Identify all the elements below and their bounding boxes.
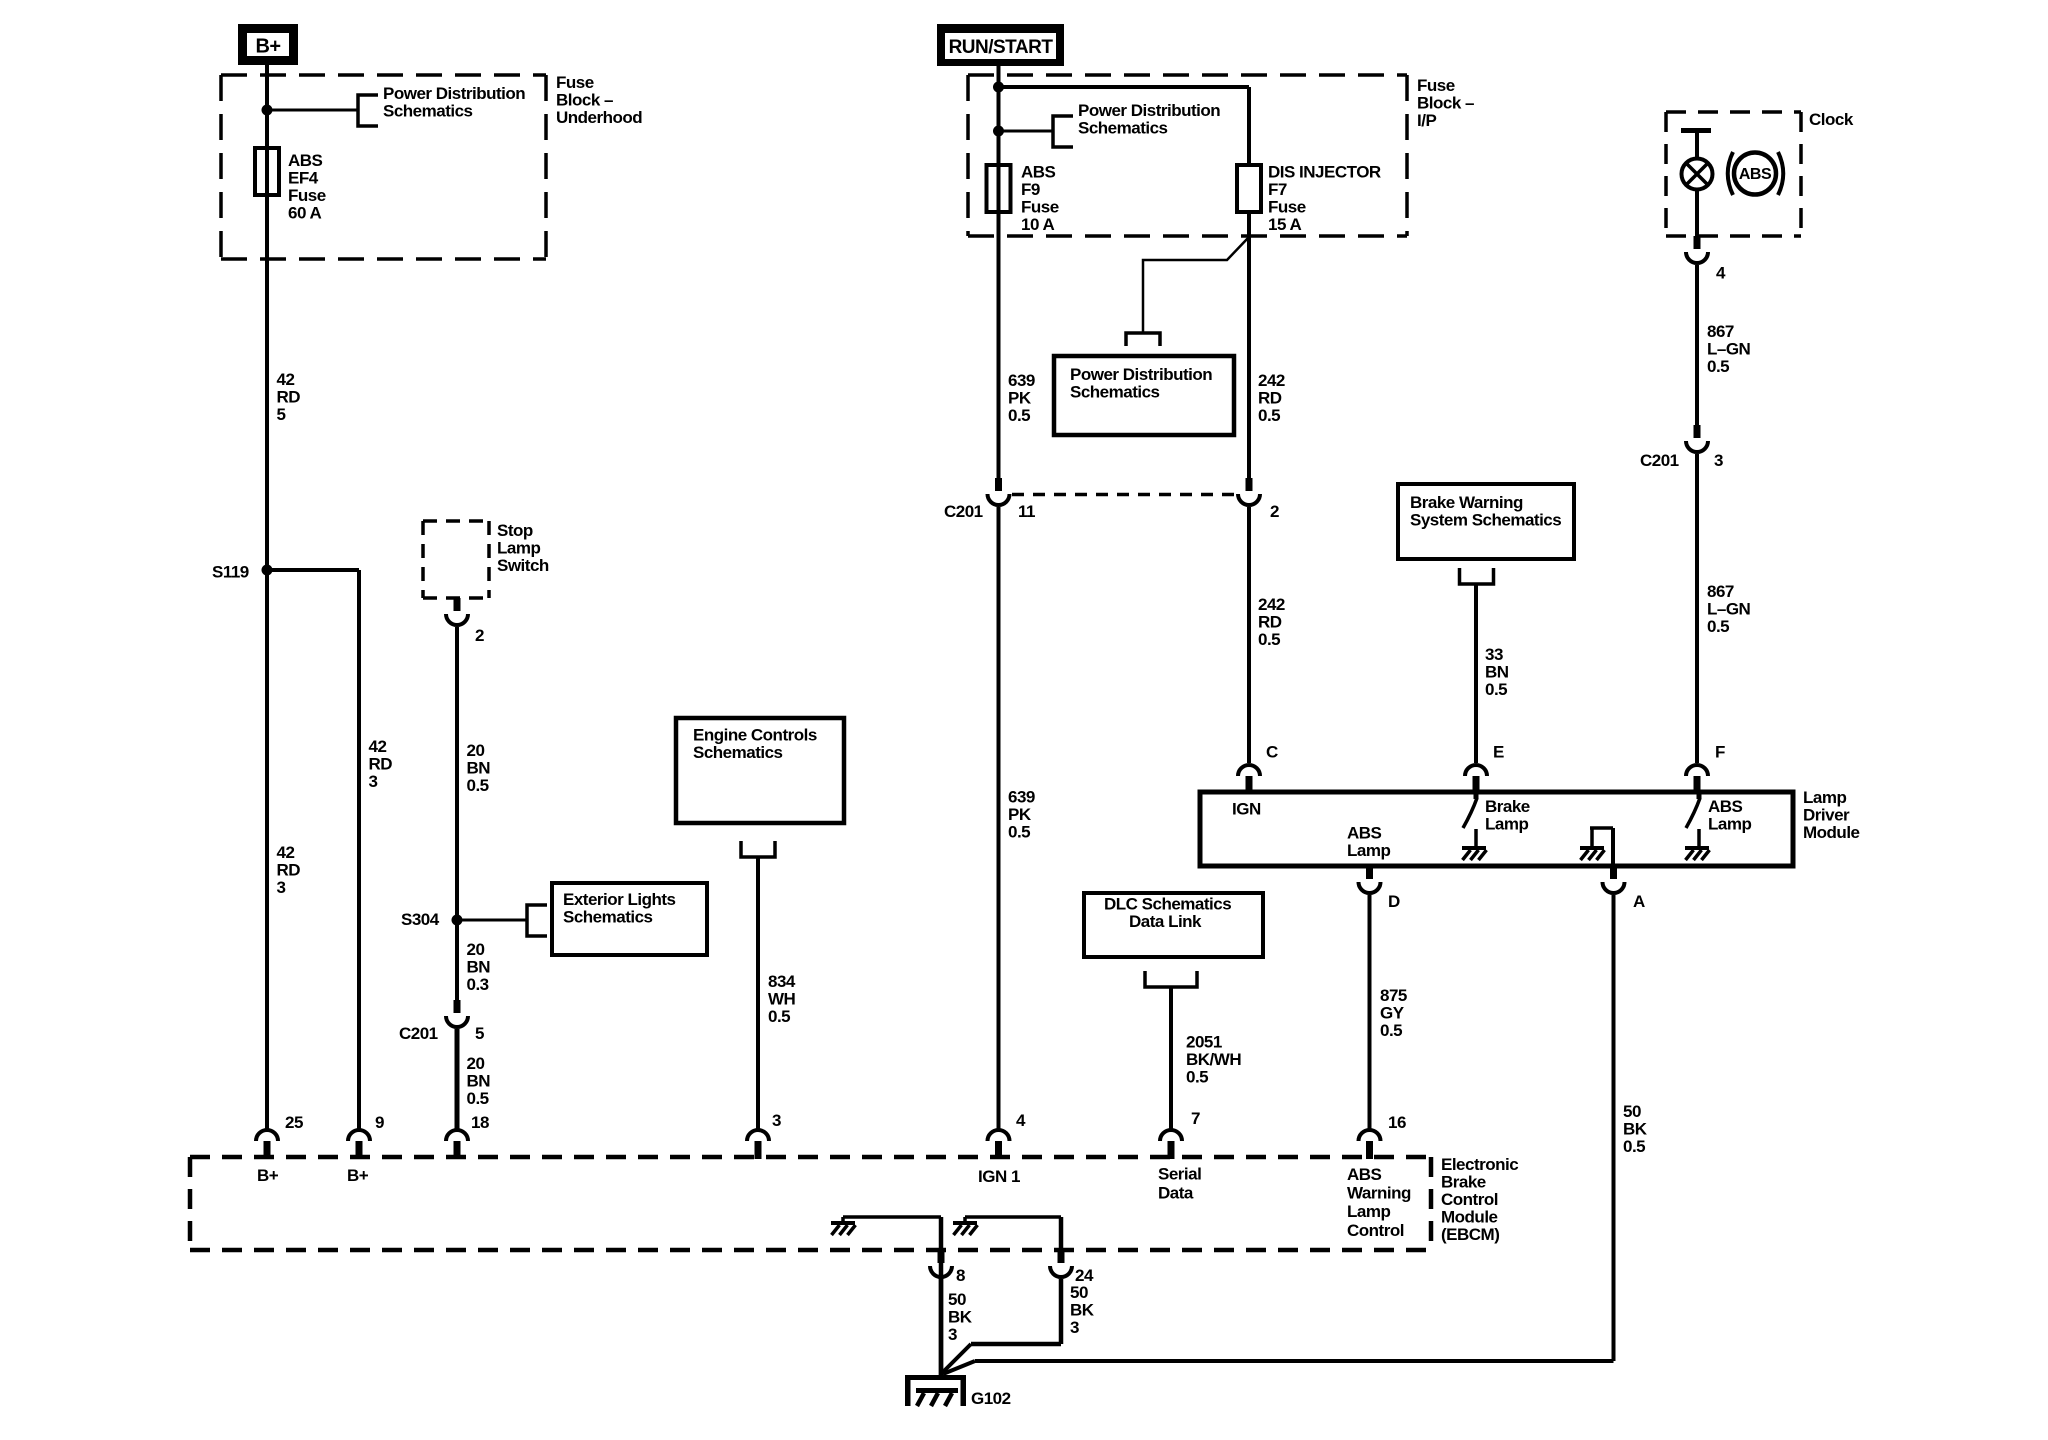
svg-text:0.5: 0.5 bbox=[1707, 357, 1729, 376]
wire 20 BN to splice S304 bbox=[455, 627, 459, 920]
in-line connector C201 pin 5 bbox=[454, 1000, 461, 1013]
svg-text:RD: RD bbox=[277, 388, 301, 407]
EBCM terminal 16 bbox=[1359, 1130, 1381, 1141]
reference bracket power distribution IP bbox=[1053, 116, 1073, 147]
svg-text:Schematics: Schematics bbox=[693, 743, 783, 762]
terminal bar inside clock bbox=[1681, 128, 1711, 133]
in-line connector C201 pin 3 bbox=[1694, 425, 1701, 438]
EBCM terminal 18 bbox=[446, 1130, 468, 1141]
svg-text:C201: C201 bbox=[399, 1024, 438, 1043]
abs lamp switch inside module bbox=[1697, 792, 1702, 799]
svg-text:G102: G102 bbox=[971, 1389, 1011, 1408]
wire to exterior lights reference bbox=[457, 919, 527, 922]
svg-text:0.5: 0.5 bbox=[1485, 680, 1507, 699]
svg-text:25: 25 bbox=[285, 1113, 303, 1132]
EBCM dashed outline bbox=[190, 1155, 1431, 1160]
svg-text:42: 42 bbox=[277, 370, 295, 389]
svg-text:ABS: ABS bbox=[288, 151, 323, 170]
svg-text:Control: Control bbox=[1347, 1221, 1404, 1240]
reference bracket under brake warning box bbox=[1460, 568, 1494, 584]
svg-text:Lamp: Lamp bbox=[497, 539, 540, 558]
svg-text:0.5: 0.5 bbox=[1186, 1068, 1208, 1087]
svg-text:20: 20 bbox=[467, 741, 485, 760]
svg-text:Lamp: Lamp bbox=[1485, 815, 1528, 834]
svg-text:875: 875 bbox=[1380, 986, 1407, 1005]
svg-text:50: 50 bbox=[1070, 1283, 1088, 1302]
reference bracket above power distribution box bbox=[1126, 333, 1160, 346]
svg-text:A: A bbox=[1633, 892, 1645, 911]
svg-text:DIS INJECTOR: DIS INJECTOR bbox=[1268, 163, 1381, 182]
connector EBCM pin 8 bbox=[938, 1250, 945, 1263]
EBCM terminal 4 bbox=[988, 1130, 1010, 1141]
svg-text:Clock: Clock bbox=[1809, 110, 1854, 129]
svg-text:S119: S119 bbox=[212, 563, 249, 582]
in-line connector C201 pin 2 bbox=[1246, 478, 1253, 491]
engine controls schematics box bbox=[676, 718, 844, 823]
svg-text:Block –: Block – bbox=[1417, 94, 1474, 113]
svg-text:Switch: Switch bbox=[497, 556, 549, 575]
wire 242 RD to lamp module pin C bbox=[1247, 507, 1251, 763]
svg-text:Fuse: Fuse bbox=[1417, 76, 1455, 95]
EBCM terminal 25 bbox=[256, 1130, 278, 1141]
splice to DIS injector feed bbox=[993, 82, 1004, 93]
svg-text:E: E bbox=[1493, 743, 1504, 762]
svg-text:Engine Controls: Engine Controls bbox=[693, 726, 817, 745]
svg-text:10 A: 10 A bbox=[1021, 215, 1055, 234]
wire bar to lamp bbox=[1695, 131, 1699, 159]
svg-text:8: 8 bbox=[956, 1266, 965, 1285]
fuse DIS INJECTOR F7 15A symbol bbox=[1237, 165, 1261, 212]
wire 42 RD from B+ to EBCM pin 25 bbox=[265, 65, 269, 1129]
svg-text:Electronic: Electronic bbox=[1441, 1155, 1518, 1174]
brake lamp switch inside module bbox=[1474, 792, 1479, 799]
svg-text:5: 5 bbox=[277, 405, 286, 424]
svg-text:Power Distribution: Power Distribution bbox=[1070, 365, 1212, 384]
connector clock pin 4 bbox=[1694, 236, 1701, 249]
svg-text:Schematics: Schematics bbox=[1078, 119, 1168, 138]
svg-text:4: 4 bbox=[1716, 264, 1726, 283]
wire lamp to clock pin 4 bbox=[1695, 189, 1699, 236]
svg-text:0.5: 0.5 bbox=[1008, 823, 1030, 842]
svg-text:20: 20 bbox=[467, 940, 485, 959]
indicator lamp symbol bbox=[1682, 159, 1713, 190]
internal ground jog for pin A bbox=[1590, 828, 1594, 846]
wire 875 GY to EBCM pin 16 bbox=[1368, 895, 1372, 1129]
svg-text:WH: WH bbox=[768, 990, 796, 1009]
svg-text:(EBCM): (EBCM) bbox=[1441, 1225, 1499, 1244]
svg-text:BN: BN bbox=[1485, 663, 1509, 682]
svg-text:L–GN: L–GN bbox=[1707, 340, 1751, 359]
wire 50 BK 3 from pin 24 to G102 bbox=[1059, 1279, 1064, 1344]
wire to DIS INJECTOR fuse bbox=[999, 85, 1250, 89]
svg-text:C: C bbox=[1266, 743, 1278, 762]
svg-text:18: 18 bbox=[471, 1113, 489, 1132]
svg-text:ABS: ABS bbox=[1347, 824, 1382, 843]
svg-text:BK: BK bbox=[1070, 1301, 1095, 1320]
svg-text:GY: GY bbox=[1380, 1004, 1405, 1023]
svg-text:7: 7 bbox=[1191, 1109, 1200, 1128]
svg-text:834: 834 bbox=[768, 972, 796, 991]
svg-text:3: 3 bbox=[277, 878, 286, 897]
svg-text:I/P: I/P bbox=[1417, 111, 1436, 130]
power distribution schematics box bbox=[1054, 356, 1234, 435]
svg-text:Module: Module bbox=[1803, 823, 1860, 842]
svg-text:DLC Schematics: DLC Schematics bbox=[1104, 895, 1231, 914]
wire to power distribution bracket bbox=[999, 130, 1054, 133]
wire 50 BK 3 from pin 8 to G102 bbox=[939, 1279, 944, 1376]
svg-text:639: 639 bbox=[1008, 371, 1035, 390]
svg-text:639: 639 bbox=[1008, 788, 1035, 807]
connector EBCM pin 24 bbox=[1058, 1250, 1065, 1263]
EBCM terminal 3 bbox=[747, 1130, 769, 1141]
svg-text:9: 9 bbox=[375, 1113, 384, 1132]
fuse EF4 60A symbol bbox=[255, 148, 279, 195]
svg-text:ABS: ABS bbox=[1739, 166, 1772, 183]
ground G102 symbol bbox=[905, 1375, 966, 1380]
svg-text:Schematics: Schematics bbox=[563, 908, 653, 927]
wire 50 BK from pin A to G102 bbox=[1612, 895, 1616, 1361]
svg-text:F: F bbox=[1715, 743, 1725, 762]
svg-text:BK: BK bbox=[948, 1308, 973, 1327]
wire 867 L-GN to C201 pin 3 bbox=[1695, 265, 1699, 425]
svg-text:2: 2 bbox=[475, 626, 484, 645]
svg-text:Brake Warning: Brake Warning bbox=[1410, 493, 1523, 512]
svg-text:ABS: ABS bbox=[1021, 163, 1056, 182]
wire 867 L-GN to lamp module pin F bbox=[1695, 454, 1699, 763]
wire branch from S119 to EBCM pin 9 bbox=[267, 568, 359, 572]
svg-text:EF4: EF4 bbox=[288, 169, 319, 188]
lamp driver module box bbox=[1200, 792, 1793, 866]
svg-text:BK/WH: BK/WH bbox=[1186, 1050, 1241, 1069]
svg-text:F9: F9 bbox=[1021, 180, 1040, 199]
ignition feed RUN/START symbol box bbox=[937, 24, 1064, 66]
svg-text:867: 867 bbox=[1707, 322, 1734, 341]
svg-text:0.5: 0.5 bbox=[1258, 406, 1280, 425]
svg-text:Fuse: Fuse bbox=[556, 73, 594, 92]
svg-text:BN: BN bbox=[467, 759, 491, 778]
wire 2051 BK/WH to EBCM pin 7 bbox=[1169, 987, 1173, 1129]
stop lamp switch dashed box bbox=[423, 519, 489, 523]
svg-text:Schematics: Schematics bbox=[383, 102, 473, 121]
svg-text:System Schematics: System Schematics bbox=[1410, 511, 1561, 530]
svg-text:Lamp: Lamp bbox=[1347, 841, 1390, 860]
svg-text:Fuse: Fuse bbox=[288, 186, 326, 205]
EBCM internal ground 2 bbox=[965, 1215, 1061, 1219]
dashed connector line C201 bbox=[1012, 493, 1238, 497]
svg-text:B+: B+ bbox=[347, 1166, 369, 1185]
ground symbol 1 inside EBCM bbox=[831, 1221, 855, 1225]
reference bracket power distribution underhood bbox=[358, 95, 378, 126]
splice to power distribution reference bbox=[993, 126, 1004, 137]
wire 20 BN to EBCM pin 18 bbox=[455, 1029, 460, 1129]
svg-text:D: D bbox=[1388, 892, 1400, 911]
wire 639 PK to EBCM pin 4 bbox=[997, 507, 1001, 1129]
svg-text:C201: C201 bbox=[1640, 451, 1679, 470]
svg-text:Power Distribution: Power Distribution bbox=[383, 84, 525, 103]
svg-text:Module: Module bbox=[1441, 1208, 1498, 1227]
svg-text:242: 242 bbox=[1258, 371, 1285, 390]
svg-text:Fuse: Fuse bbox=[1021, 198, 1059, 217]
svg-text:3: 3 bbox=[369, 772, 378, 791]
svg-text:B+: B+ bbox=[257, 1166, 279, 1185]
svg-text:Fuse: Fuse bbox=[1268, 198, 1306, 217]
svg-text:0.5: 0.5 bbox=[1380, 1021, 1402, 1040]
splice junction in fuse block bbox=[262, 105, 273, 116]
svg-text:3: 3 bbox=[948, 1325, 957, 1344]
svg-text:Schematics: Schematics bbox=[1070, 383, 1160, 402]
svg-text:BN: BN bbox=[467, 958, 491, 977]
tap wire to power distribution box bbox=[1143, 238, 1248, 333]
ground inside module bbox=[1580, 846, 1604, 850]
svg-text:242: 242 bbox=[1258, 595, 1285, 614]
svg-text:RD: RD bbox=[1258, 389, 1282, 408]
svg-text:2051: 2051 bbox=[1186, 1033, 1222, 1052]
EBCM ground wire 2 exit bbox=[1059, 1217, 1064, 1250]
ground under brake lamp switch bbox=[1462, 846, 1486, 850]
svg-text:42: 42 bbox=[277, 843, 295, 862]
svg-text:Data Link: Data Link bbox=[1129, 912, 1202, 931]
svg-text:5: 5 bbox=[475, 1024, 484, 1043]
wire 33 BN to lamp module pin E bbox=[1474, 584, 1478, 763]
clock dashed box bbox=[1666, 110, 1801, 114]
svg-text:3: 3 bbox=[1714, 451, 1723, 470]
svg-text:Warning: Warning bbox=[1347, 1184, 1411, 1203]
svg-text:4: 4 bbox=[1016, 1111, 1026, 1130]
svg-text:RUN/START: RUN/START bbox=[949, 37, 1054, 58]
svg-text:0.5: 0.5 bbox=[467, 776, 489, 795]
svg-text:33: 33 bbox=[1485, 645, 1503, 664]
svg-text:Brake: Brake bbox=[1485, 797, 1530, 816]
battery feed B+ symbol box bbox=[238, 24, 298, 65]
wire to power distribution reference bbox=[267, 109, 358, 112]
EBCM terminal 7 bbox=[1160, 1130, 1182, 1141]
EBCM ground wire 1 exit bbox=[939, 1217, 944, 1250]
svg-text:50: 50 bbox=[948, 1290, 966, 1309]
svg-text:15 A: 15 A bbox=[1268, 215, 1302, 234]
svg-text:60 A: 60 A bbox=[288, 204, 322, 223]
svg-text:Stop: Stop bbox=[497, 521, 533, 540]
fuse block underhood dashed outline bbox=[221, 73, 546, 77]
reference bracket under dlc box bbox=[1145, 971, 1197, 987]
svg-text:Power Distribution: Power Distribution bbox=[1078, 101, 1220, 120]
svg-text:16: 16 bbox=[1388, 1113, 1406, 1132]
svg-text:Exterior Lights: Exterior Lights bbox=[563, 890, 676, 909]
svg-text:0.5: 0.5 bbox=[768, 1007, 790, 1026]
svg-text:RD: RD bbox=[1258, 613, 1282, 632]
svg-text:20: 20 bbox=[467, 1054, 485, 1073]
EBCM terminal 9 bbox=[348, 1130, 370, 1141]
svg-text:Lamp: Lamp bbox=[1803, 788, 1846, 807]
svg-text:0.5: 0.5 bbox=[1707, 617, 1729, 636]
svg-text:ABS: ABS bbox=[1347, 1165, 1382, 1184]
exterior lights schematics box bbox=[552, 883, 707, 955]
svg-text:Block –: Block – bbox=[556, 91, 613, 110]
EBCM internal ground 1 bbox=[843, 1215, 941, 1219]
reference bracket under engine controls box bbox=[741, 841, 775, 857]
svg-text:Brake: Brake bbox=[1441, 1173, 1486, 1192]
wire 20 BN from S304 to C201 pin 5 bbox=[455, 920, 459, 1002]
svg-text:42: 42 bbox=[369, 737, 387, 756]
svg-text:PK: PK bbox=[1008, 389, 1032, 408]
svg-text:0.5: 0.5 bbox=[1258, 630, 1280, 649]
svg-text:B+: B+ bbox=[255, 36, 280, 58]
svg-text:Serial: Serial bbox=[1158, 1165, 1201, 1184]
svg-text:RD: RD bbox=[369, 755, 393, 774]
dlc schematics data link box bbox=[1084, 893, 1263, 957]
ground under abs lamp switch bbox=[1685, 846, 1709, 850]
svg-text:Lamp: Lamp bbox=[1347, 1202, 1390, 1221]
svg-text:Lamp: Lamp bbox=[1708, 815, 1751, 834]
svg-text:0.5: 0.5 bbox=[1008, 406, 1030, 425]
splice S304 bbox=[452, 915, 463, 926]
wire 242 RD from F7 fuse to C201 pin 2 bbox=[1247, 212, 1251, 478]
svg-text:BN: BN bbox=[467, 1072, 491, 1091]
svg-text:Control: Control bbox=[1441, 1190, 1498, 1209]
svg-text:3: 3 bbox=[1070, 1318, 1079, 1337]
svg-text:867: 867 bbox=[1707, 582, 1734, 601]
svg-text:ABS: ABS bbox=[1708, 797, 1743, 816]
reference bracket exterior lights bbox=[527, 905, 547, 936]
svg-text:0.3: 0.3 bbox=[467, 975, 489, 994]
svg-text:C201: C201 bbox=[944, 502, 983, 521]
lamp module terminal E bbox=[1465, 765, 1487, 776]
svg-text:RD: RD bbox=[277, 861, 301, 880]
svg-text:PK: PK bbox=[1008, 805, 1032, 824]
wire from RUN/START into fuse block IP bbox=[997, 66, 1001, 478]
svg-text:0.5: 0.5 bbox=[1623, 1137, 1645, 1156]
svg-text:BK: BK bbox=[1623, 1120, 1648, 1139]
svg-text:Underhood: Underhood bbox=[556, 108, 642, 127]
svg-text:2: 2 bbox=[1270, 502, 1279, 521]
lamp module terminal F bbox=[1686, 765, 1708, 776]
brake warning system schematics box bbox=[1398, 484, 1574, 559]
svg-text:50: 50 bbox=[1623, 1102, 1641, 1121]
svg-text:S304: S304 bbox=[401, 910, 440, 929]
ground symbol 2 inside EBCM bbox=[953, 1221, 977, 1225]
fuse block IP dashed outline bbox=[968, 73, 1407, 77]
svg-text:Driver: Driver bbox=[1803, 806, 1850, 825]
svg-text:3: 3 bbox=[772, 1111, 781, 1130]
ABS telltale symbol bbox=[1728, 152, 1733, 195]
wire 834 WH to EBCM pin 3 bbox=[756, 857, 760, 1129]
svg-text:L–GN: L–GN bbox=[1707, 600, 1751, 619]
splice S119 bbox=[262, 565, 273, 576]
in-line connector C201 pin 11 bbox=[995, 478, 1002, 491]
lamp module terminal D bbox=[1366, 866, 1373, 879]
svg-text:F7: F7 bbox=[1268, 180, 1287, 199]
lamp module terminal C bbox=[1238, 765, 1260, 776]
svg-text:IGN 1: IGN 1 bbox=[978, 1167, 1020, 1186]
connector pin 2 of stop lamp switch bbox=[454, 598, 461, 611]
svg-text:IGN: IGN bbox=[1232, 800, 1261, 819]
svg-text:Data: Data bbox=[1158, 1184, 1194, 1203]
svg-text:0.5: 0.5 bbox=[467, 1089, 489, 1108]
fuse ABS F9 10A symbol bbox=[987, 165, 1011, 212]
svg-text:11: 11 bbox=[1018, 502, 1035, 521]
lamp module terminal A bbox=[1610, 866, 1617, 879]
